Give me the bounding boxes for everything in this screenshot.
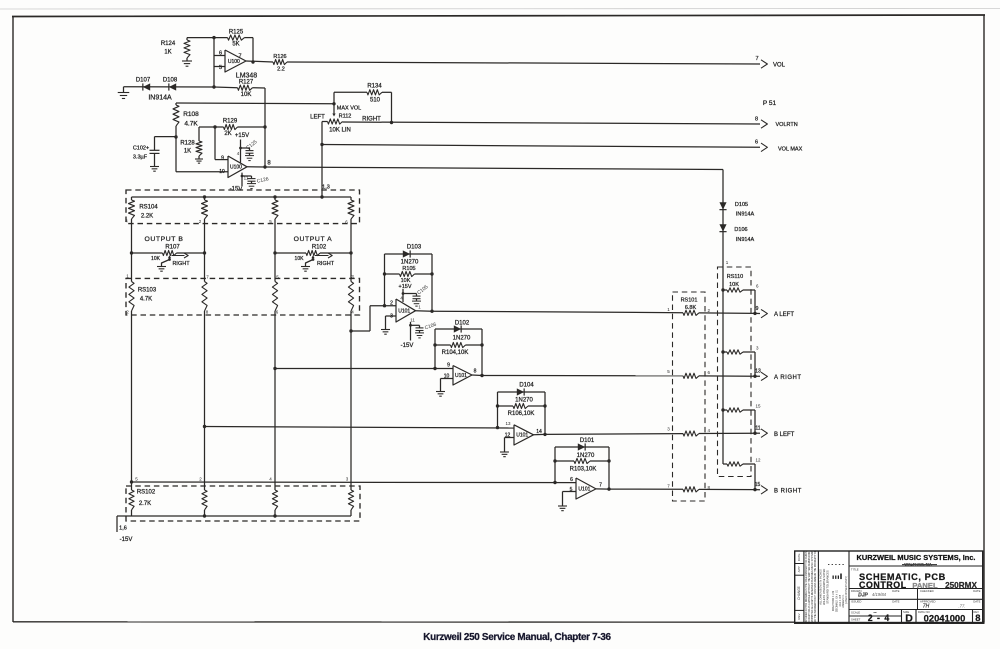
svg-text:3.3µF: 3.3µF: [133, 155, 148, 161]
svg-text:1K: 1K: [184, 149, 191, 155]
svg-text:10K: 10K: [295, 256, 305, 262]
svg-text:1K: 1K: [164, 50, 171, 56]
svg-text:R127: R127: [239, 80, 254, 86]
svg-text:VOL MAX: VOL MAX: [778, 147, 803, 153]
svg-text:CONTROL: CONTROL: [859, 580, 907, 590]
svg-text:D107: D107: [136, 78, 151, 84]
svg-text:IN914A: IN914A: [736, 212, 755, 218]
svg-text:6.8K: 6.8K: [685, 305, 697, 311]
svg-text:6: 6: [219, 51, 222, 57]
svg-text:15: 15: [756, 404, 762, 409]
svg-text:4/19/84: 4/19/84: [872, 592, 887, 597]
svg-text:DATE: DATE: [892, 589, 899, 593]
svg-text:D: D: [905, 612, 913, 624]
svg-text:11: 11: [755, 426, 760, 432]
svg-text:2: 2: [390, 301, 393, 307]
svg-text:12: 12: [756, 458, 762, 463]
svg-text:A LEFT: A LEFT: [774, 312, 794, 318]
svg-text:RIGHT: RIGHT: [172, 261, 190, 267]
svg-text:DJP: DJP: [858, 593, 868, 599]
svg-text:12: 12: [505, 433, 511, 439]
svg-text:1N270: 1N270: [577, 453, 595, 459]
svg-text:D104: D104: [519, 383, 534, 389]
svg-text:MAX VOL: MAX VOL: [337, 106, 361, 112]
svg-text:5: 5: [570, 487, 573, 493]
svg-text:KURZWEIL MUSIC SYSTEMS, Inc.: KURZWEIL MUSIC SYSTEMS, Inc.: [857, 553, 976, 562]
svg-text:3: 3: [390, 314, 393, 320]
svg-text:REV: REV: [797, 613, 801, 619]
svg-text:APP: APP: [797, 566, 801, 572]
svg-text:VOLRTN: VOLRTN: [776, 122, 798, 128]
svg-text:5: 5: [219, 65, 222, 71]
svg-text:2.2K: 2.2K: [141, 214, 153, 220]
svg-text:1N270: 1N270: [515, 398, 533, 404]
svg-text:1,6: 1,6: [119, 526, 127, 532]
svg-text:10K: 10K: [241, 92, 252, 98]
svg-text:DECIMALS .XX ± .01: DECIMALS .XX ± .01: [836, 589, 839, 612]
svg-text:R125: R125: [229, 30, 244, 36]
svg-text:RIGHT: RIGHT: [317, 261, 335, 267]
svg-text:Kurzweil 250 Service Manual, C: Kurzweil 250 Service Manual, Chapter 7-3…: [423, 632, 611, 643]
svg-text:DATE: DATE: [973, 600, 980, 604]
svg-text:13: 13: [755, 369, 761, 375]
svg-text:R124: R124: [161, 41, 176, 47]
svg-text:R103,10K: R103,10K: [570, 467, 597, 473]
svg-text:5K: 5K: [232, 42, 239, 48]
svg-text:8: 8: [474, 369, 477, 375]
svg-text:B LEFT: B LEFT: [774, 432, 795, 438]
svg-text:10K: 10K: [151, 256, 161, 262]
svg-text:UNLESS OTHERWISE NOTED: UNLESS OTHERWISE NOTED: [822, 569, 826, 606]
svg-text:4.7K: 4.7K: [140, 297, 152, 303]
svg-text:IN914A: IN914A: [736, 237, 755, 243]
svg-text:U100: U100: [230, 165, 242, 171]
svg-text:OUTPUT B: OUTPUT B: [144, 236, 183, 243]
svg-text:SCALE: SCALE: [851, 611, 860, 615]
svg-text:9: 9: [756, 306, 759, 312]
svg-text:R105: R105: [402, 266, 415, 272]
svg-text:D105: D105: [735, 202, 748, 208]
svg-text:SHEET: SHEET: [851, 618, 861, 622]
svg-text:7: 7: [238, 54, 241, 60]
svg-text:1N270: 1N270: [453, 336, 471, 342]
svg-text:IN914A: IN914A: [148, 95, 172, 102]
svg-text:DATE: DATE: [797, 554, 801, 562]
svg-text:ALL DIMENSIONS IN INCHES: ALL DIMENSIONS IN INCHES: [819, 569, 823, 605]
svg-text:+15V: +15V: [399, 284, 412, 290]
svg-text:RS110: RS110: [727, 274, 743, 280]
svg-text:D108: D108: [163, 78, 178, 84]
svg-text:DATE: DATE: [973, 589, 980, 593]
svg-text:A RIGHT: A RIGHT: [774, 375, 802, 381]
svg-text:R112: R112: [339, 114, 352, 120]
svg-text:RS101: RS101: [681, 298, 698, 304]
svg-text:U101: U101: [398, 309, 410, 315]
svg-text:510: 510: [370, 98, 381, 104]
svg-text:CHECKED: CHECKED: [920, 589, 934, 593]
svg-text:8: 8: [755, 117, 758, 123]
svg-text:CHANGE: CHANGE: [797, 586, 801, 600]
svg-text:RS102: RS102: [137, 490, 156, 496]
svg-text:7H: 7H: [923, 604, 930, 610]
svg-text:13: 13: [505, 421, 511, 426]
svg-text:LM348: LM348: [236, 73, 258, 80]
svg-text:RS103: RS103: [138, 288, 157, 294]
svg-text:6: 6: [755, 140, 758, 146]
svg-text:02041000: 02041000: [924, 612, 966, 623]
svg-text:ISSUED: ISSUED: [851, 600, 861, 604]
svg-text:B RIGHT: B RIGHT: [774, 489, 802, 495]
svg-text:R134: R134: [367, 84, 382, 90]
svg-text:R126: R126: [273, 54, 286, 60]
svg-text:(USED ON NEXT ASSY): (USED ON NEXT ASSY): [845, 576, 848, 604]
svg-text:VOL: VOL: [773, 63, 786, 69]
svg-text:LEFT: LEFT: [310, 115, 325, 121]
svg-text:2.7K: 2.7K: [139, 501, 151, 507]
svg-text:DATE: DATE: [892, 600, 899, 604]
svg-text:C102+: C102+: [133, 146, 149, 152]
svg-text:7: 7: [599, 483, 602, 489]
svg-text:D102: D102: [455, 321, 470, 327]
svg-text:-15V: -15V: [401, 343, 414, 349]
svg-text:RS104: RS104: [139, 205, 158, 211]
svg-text:R106,10K: R106,10K: [508, 411, 535, 417]
svg-text:9: 9: [221, 156, 224, 162]
svg-text:+15V: +15V: [235, 133, 249, 139]
svg-text:7: 7: [755, 56, 758, 62]
svg-text:10K: 10K: [729, 282, 739, 288]
svg-text:U101: U101: [578, 487, 590, 493]
svg-text:R108: R108: [183, 111, 199, 118]
svg-text:R129: R129: [223, 119, 238, 125]
svg-text:FRACTIONS ± 1/32: FRACTIONS ± 1/32: [832, 590, 835, 611]
svg-text:6: 6: [570, 477, 573, 483]
svg-text:U100: U100: [228, 59, 240, 65]
svg-text:9: 9: [447, 363, 450, 369]
svg-text:1N270: 1N270: [401, 260, 419, 266]
svg-text:R128: R128: [180, 141, 195, 147]
svg-text:R107: R107: [165, 245, 180, 251]
svg-text:10: 10: [219, 169, 225, 175]
svg-text:2.2: 2.2: [277, 67, 285, 73]
svg-text:2 - 4: 2 - 4: [868, 613, 891, 623]
svg-text:R104,10K: R104,10K: [442, 350, 469, 356]
svg-text:STANDARD TOLERANCES: STANDARD TOLERANCES: [826, 570, 830, 604]
svg-text:OUTPUT A: OUTPUT A: [294, 236, 333, 243]
svg-text:8: 8: [975, 612, 980, 623]
svg-text:-15V: -15V: [120, 537, 133, 543]
svg-text:R102: R102: [312, 245, 327, 251]
svg-text:TITLE: TITLE: [851, 568, 859, 572]
svg-text:4.7K: 4.7K: [184, 121, 198, 128]
svg-text:P 51: P 51: [763, 100, 777, 107]
svg-text:2K: 2K: [224, 131, 231, 137]
svg-text:.XXX ± .005: .XXX ± .005: [840, 594, 842, 607]
svg-text:D103: D103: [407, 245, 422, 251]
svg-text:U101: U101: [516, 433, 528, 439]
svg-text:D101: D101: [580, 438, 595, 444]
svg-text:11: 11: [410, 318, 415, 323]
svg-text:.77.: .77.: [959, 604, 966, 609]
svg-text:10: 10: [444, 374, 450, 380]
svg-text:U101: U101: [455, 373, 467, 379]
svg-text:D106: D106: [734, 227, 747, 233]
svg-text:10K LIN: 10K LIN: [329, 128, 351, 134]
